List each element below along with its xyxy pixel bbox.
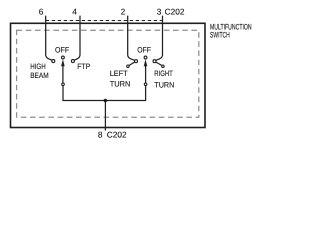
junction node <box>104 99 108 103</box>
switch S1 wiper arrow <box>61 59 65 66</box>
switch S2 contact RIGHT TURN <box>153 60 156 63</box>
svg-text:SWITCH: SWITCH <box>210 30 230 39</box>
svg-text:LEFT: LEFT <box>110 69 128 78</box>
switch S2 wiper arrow <box>144 59 148 66</box>
pin 6 wire <box>46 16 52 61</box>
wire from S1 common to junction <box>63 86 105 101</box>
pin 8 wire <box>104 101 106 131</box>
svg-text:C202: C202 <box>107 130 127 140</box>
link right contact to auxiliary <box>156 62 162 66</box>
switch S1 pivot circle <box>62 56 65 59</box>
svg-text:TURN: TURN <box>154 80 174 89</box>
switch S1 contact FTP <box>71 60 74 63</box>
svg-text:HIGH: HIGH <box>30 62 46 71</box>
switch S2 (turn signal) contact LEFT TURN <box>135 60 138 63</box>
svg-text:6: 6 <box>39 7 44 17</box>
switch S1 wiper shaft <box>62 66 64 84</box>
connector C202 dashed bus line (top) <box>46 20 163 22</box>
switch S2 pivot circle <box>144 56 147 59</box>
pin 4 wire <box>74 16 80 61</box>
switch S2 wiper shaft <box>145 66 147 84</box>
multifunction switch internal dashed outline <box>17 30 199 117</box>
svg-text:RIGHT: RIGHT <box>154 69 173 78</box>
svg-text:2: 2 <box>121 7 126 17</box>
pin 3 wire <box>156 16 163 61</box>
link left contact to auxiliary <box>129 62 135 66</box>
svg-text:8: 8 <box>98 130 103 140</box>
svg-text:FTP: FTP <box>77 62 90 71</box>
switch S1 shaft joint circle <box>62 83 65 86</box>
svg-text:3: 3 <box>157 7 162 17</box>
switch S1 (dimmer) contact HIGH BEAM <box>52 60 55 63</box>
svg-text:OFF: OFF <box>137 46 151 55</box>
svg-text:OFF: OFF <box>55 45 69 54</box>
switch S2 shaft joint circle <box>144 83 147 86</box>
switch S2 right auxiliary contact <box>162 65 164 67</box>
svg-text:C202: C202 <box>165 7 185 17</box>
svg-text:TURN: TURN <box>110 80 131 89</box>
wire from S2 common to junction <box>105 86 145 101</box>
switch S2 left auxiliary contact <box>127 65 129 67</box>
svg-text:4: 4 <box>72 7 77 17</box>
pin 2 wire <box>128 16 135 61</box>
component box: multifunction switch solid outline <box>11 23 206 127</box>
svg-text:BEAM: BEAM <box>30 71 49 80</box>
